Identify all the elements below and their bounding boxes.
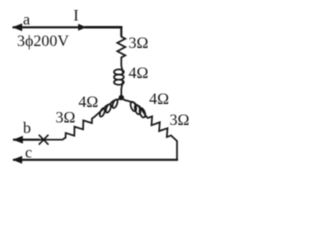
svg-text:I: I — [73, 8, 78, 25]
svg-text:b: b — [23, 120, 31, 137]
wire: phase b lead — [13, 139, 40, 141]
svg-text:3Ω: 3Ω — [56, 110, 76, 127]
node: star point junction — [119, 95, 124, 100]
svg-text:3ϕ200V: 3ϕ200V — [17, 33, 69, 50]
svg-text:4Ω: 4Ω — [78, 94, 98, 111]
wire: phase a top horizontal — [13, 26, 87, 28]
wire: phase c bottom lead — [13, 159, 178, 161]
wire: phase b resistor to switch — [40, 138, 66, 140]
wire: phase a top horizontal thick segment — [85, 26, 122, 29]
arrowhead: phase a pointing left — [12, 23, 22, 31]
svg-text:c: c — [25, 144, 32, 161]
resistor 3ohm phase b — [66, 119, 92, 138]
wire: phase c inductor to resistor — [147, 116, 148, 119]
wire: phase b inductor to resistor — [92, 117, 95, 119]
svg-text:4Ω: 4Ω — [129, 65, 149, 82]
svg-text:3Ω: 3Ω — [129, 35, 149, 52]
wire: top corner down to phase a resistor — [120, 26, 122, 36]
resistor 3ohm phase c — [148, 116, 171, 137]
switch/fault X on phase b — [39, 135, 48, 144]
arrowhead: current I pointing right — [78, 24, 86, 31]
inductor 4ohm phase a — [114, 66, 124, 90]
arrowhead: phase b pointing left — [13, 136, 23, 144]
wire: star node to phase c inductor — [121, 98, 124, 100]
arrowhead: phase c pointing left — [12, 156, 22, 164]
resistor 3ohm phase a — [117, 37, 125, 58]
wire: between phase a resistor and inductor — [120, 58, 122, 66]
svg-text:a: a — [23, 11, 30, 28]
wire: phase a inductor to star node — [120, 89, 122, 98]
wire: star node to phase b inductor — [119, 98, 121, 100]
inductor 4ohm phase b — [95, 99, 119, 117]
svg-text:4Ω: 4Ω — [149, 91, 169, 108]
inductor 4ohm phase c — [125, 100, 147, 117]
svg-text:3Ω: 3Ω — [170, 112, 190, 129]
wire: phase c resistor to bottom right corner — [171, 136, 177, 160]
